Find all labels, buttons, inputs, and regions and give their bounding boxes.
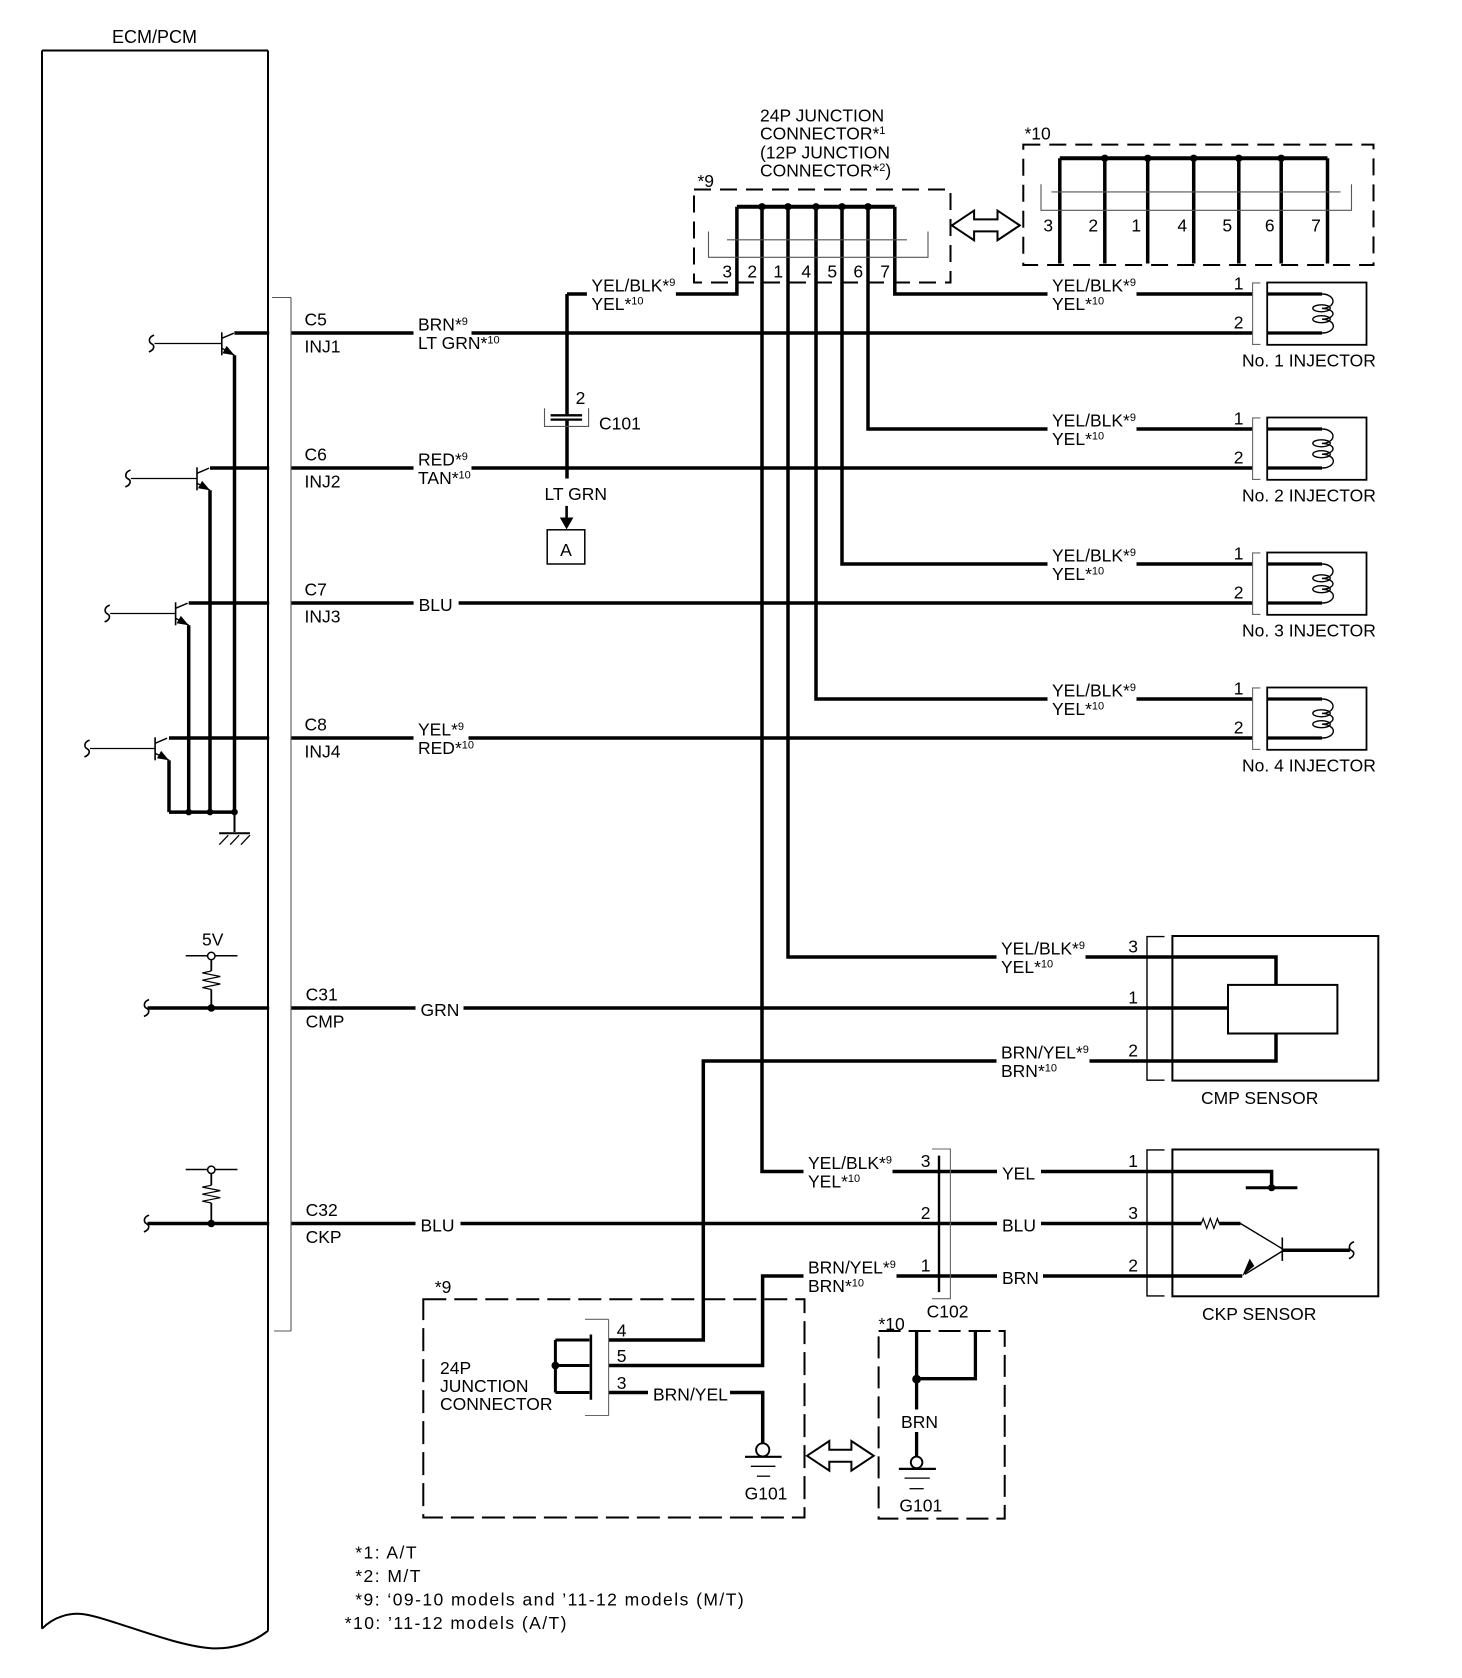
transistor Q3 base break squiggle (105, 605, 110, 622)
svg-text:*10: *10 (879, 1314, 906, 1334)
svg-text:CMP: CMP (306, 1012, 345, 1032)
junction dot rail Q1 (231, 809, 238, 816)
svg-text:2: 2 (1128, 1256, 1138, 1276)
transistor Q4 base wire (90, 748, 155, 750)
svg-text:CKP: CKP (306, 1227, 342, 1247)
svg-text:*9: ‘09-10 models and ’11-12 m: *9: ‘09-10 models and ’11-12 models (M/T… (355, 1590, 745, 1610)
bottom 24P junction connector *9 dashed box (423, 1299, 804, 1517)
svg-text:C7: C7 (305, 580, 327, 600)
transistor Q3 (175, 602, 177, 625)
label YEL/BLK injector 1 (1048, 280, 1137, 296)
junction dot BRN (912, 1375, 921, 1384)
junction *10 bus dot 2 (1144, 155, 1151, 162)
svg-text:5: 5 (1222, 216, 1232, 236)
wire junction pin 1 to CMP sensor pin 3 (788, 207, 1276, 985)
junction dot C32 pullup (208, 1220, 216, 1228)
svg-text:YEL/BLK*9: YEL/BLK*9 (1052, 276, 1136, 296)
junction connector *9 bus bar (737, 205, 895, 209)
wire C31 GRN to CMP sensor pin 1 (148, 1006, 1229, 1010)
No. 4 injector connector bracket (1253, 688, 1261, 750)
No. 2 injector connector bracket (1253, 418, 1261, 480)
svg-text:A: A (560, 540, 572, 560)
CMP sensor box (1172, 936, 1378, 1081)
svg-text:1: 1 (773, 262, 783, 282)
label BRN/YEL C102 pin 1 (804, 1262, 897, 1278)
svg-text:YEL/BLK*9: YEL/BLK*9 (1052, 411, 1136, 431)
svg-text:CMP SENSOR: CMP SENSOR (1201, 1088, 1318, 1108)
CMP sensor inner element (1228, 985, 1337, 1034)
junction connector *9 housing lines (727, 239, 907, 241)
ECM internal ground (234, 812, 236, 832)
svg-text:INJ4: INJ4 (305, 742, 341, 762)
transistor Q1 (221, 332, 223, 355)
5V supply rail for CKP (186, 1169, 238, 1171)
svg-text:G101: G101 (899, 1496, 942, 1516)
svg-text:CONNECTOR*1: CONNECTOR*1 (760, 124, 885, 144)
svg-text:YEL/BLK*9: YEL/BLK*9 (808, 1153, 892, 1173)
svg-text:G101: G101 (745, 1484, 788, 1504)
junction *10 bus dot 1 (1101, 155, 1108, 162)
svg-text:C101: C101 (599, 414, 641, 434)
svg-text:2: 2 (1234, 583, 1244, 603)
pullup resistor R1 (210, 960, 212, 971)
No. 3 injector connector bracket (1253, 553, 1261, 615)
svg-text:4: 4 (617, 1321, 627, 1341)
arrow to A (565, 506, 568, 518)
svg-text:1: 1 (1234, 274, 1244, 294)
label RED / TAN (414, 454, 472, 470)
svg-text:YEL/BLK*9: YEL/BLK*9 (591, 276, 675, 296)
junction *9 bus dot pin 4 (812, 203, 819, 210)
svg-text:24P: 24P (440, 1358, 471, 1378)
svg-text:CKP SENSOR: CKP SENSOR (1202, 1304, 1316, 1324)
svg-text:2: 2 (1234, 313, 1244, 333)
No. 1 injector connector bracket (1253, 283, 1261, 345)
No. 3 injector box (1267, 553, 1366, 615)
svg-text:1: 1 (1234, 679, 1244, 699)
svg-text:YEL/BLK*9: YEL/BLK*9 (1001, 939, 1085, 959)
transistor Q2 base wire (131, 478, 197, 480)
svg-text:C102: C102 (927, 1302, 969, 1322)
C31 wire break squiggle (144, 1000, 149, 1017)
wire YEL/BLK supply from capacitor node to junction pin 3 (567, 207, 737, 294)
svg-text:C32: C32 (306, 1200, 338, 1220)
label BRN CKP pin 2 (997, 1263, 1043, 1280)
wire C8 YEL/RED to No.4 injector pin 2 (169, 736, 1253, 740)
svg-text:BRN/YEL*9: BRN/YEL*9 (808, 1258, 896, 1278)
wire junction pin 2 to C102 pin 3 YEL (762, 207, 1272, 1188)
svg-text:BRN*9: BRN*9 (418, 315, 468, 335)
svg-text:7: 7 (880, 262, 890, 282)
svg-text:3: 3 (1128, 937, 1138, 957)
svg-text:2: 2 (1088, 216, 1098, 236)
svg-text:4: 4 (801, 262, 811, 282)
svg-text:3: 3 (921, 1151, 931, 1171)
svg-text:GRN: GRN (421, 1000, 460, 1020)
ground G101 left (756, 1443, 769, 1456)
svg-text:5: 5 (827, 262, 837, 282)
junction connector *10 bus bar (1060, 156, 1328, 160)
wire C6 RED/TAN to No.2 injector pin 2 (210, 466, 1253, 470)
svg-text:3: 3 (1043, 216, 1053, 236)
ground rail inside ECM (169, 810, 235, 814)
svg-text:2: 2 (1234, 448, 1244, 468)
pullup resistor R2 (210, 1174, 212, 1186)
junction *10 bus dot 3 (1190, 155, 1197, 162)
svg-text:3: 3 (1128, 1203, 1138, 1223)
svg-text:*10: *10 (1025, 124, 1052, 144)
label YEL/BLK injector 2 (1048, 415, 1137, 431)
No. 2 injector box (1267, 418, 1366, 480)
label BLU CKP pin 3 (997, 1210, 1041, 1227)
svg-text:2: 2 (747, 262, 757, 282)
CKP pickup bar (1281, 1238, 1283, 1261)
label BLU C32 (416, 1210, 461, 1227)
CKP output break squiggle (1349, 1242, 1354, 1259)
wire capacitor branch vertical (565, 294, 569, 414)
wire bottom connector pin 3 BRN/YEL to G101 (609, 1393, 763, 1444)
CKP pickup resistor (1201, 1219, 1219, 1229)
svg-text:7: 7 (1311, 216, 1321, 236)
svg-text:4: 4 (1177, 216, 1187, 236)
CKP pickup fork upper diagonal (1241, 1224, 1283, 1249)
label BRN/YEL bottom pin 3 (648, 1379, 730, 1396)
svg-text:YEL: YEL (1002, 1164, 1035, 1184)
wire emitter Q2 to ground rail (208, 490, 212, 812)
wire CKP resistor to fork (1219, 1222, 1240, 1226)
CKP pickup lower diagonal with arrow (1245, 1251, 1282, 1274)
svg-text:CONNECTOR: CONNECTOR (440, 1394, 552, 1414)
svg-text:C5: C5 (305, 310, 327, 330)
No. 1 injector coil L1 (1267, 292, 1322, 295)
label YEL/BLK supply near capacitor (587, 280, 676, 296)
bottom junction jumper bus (554, 1340, 557, 1393)
svg-text:*2: M/T: *2: M/T (355, 1566, 422, 1586)
junction connector *10 dashed box (1023, 145, 1373, 265)
No. 2 injector coil L2 (1267, 427, 1322, 430)
junction *9 bus dot pin 1 (784, 203, 791, 210)
CMP sensor connector bracket (1147, 937, 1165, 1081)
svg-text:2: 2 (921, 1203, 931, 1223)
label YEL/BLK CMP pin 3 (997, 943, 1086, 959)
svg-text:6: 6 (853, 262, 863, 282)
svg-text:ECM/PCM: ECM/PCM (112, 27, 197, 47)
junction *10 bus dot 4 (1235, 155, 1242, 162)
node A box (547, 530, 585, 564)
svg-text:1: 1 (1234, 409, 1244, 429)
ECM/PCM box (42, 50, 268, 52)
junction *10 bus dot 5 (1278, 155, 1285, 162)
svg-text:C6: C6 (305, 445, 327, 465)
svg-text:5: 5 (617, 1346, 627, 1366)
svg-text:No. 4 INJECTOR: No. 4 INJECTOR (1242, 755, 1376, 775)
wire CMP sensor pin 2 BRN/YEL (609, 1034, 1276, 1341)
capacitor C101 (551, 414, 583, 416)
CKP sensor connector bracket (1147, 1150, 1165, 1296)
wire BRN C102 pin 1 to CKP sensor pin 2 (609, 1276, 1243, 1366)
wire junction pin 4 to No.4 injector pin 1 (816, 207, 1253, 699)
svg-text:No. 3 INJECTOR: No. 3 INJECTOR (1242, 620, 1376, 640)
wire YEL/BLK supply from junction pin 7 to No.1 injector pin 1 (895, 207, 1253, 294)
CKP internal junction dot (1268, 1184, 1275, 1191)
svg-text:2: 2 (1234, 718, 1244, 738)
No. 4 injector box (1267, 688, 1366, 750)
wire C7 BLU to No.3 injector pin 2 (189, 601, 1253, 605)
bottom G101 *10 dashed box (879, 1331, 1005, 1519)
svg-text:BRN/YEL*9: BRN/YEL*9 (1001, 1043, 1089, 1063)
equivalence arrow bottom (807, 1441, 874, 1471)
junction *9 bus dot pin 2 (758, 203, 765, 210)
svg-text:BLU: BLU (419, 595, 453, 615)
label BLU C7 (414, 590, 459, 607)
svg-text:BLU: BLU (1002, 1216, 1036, 1236)
svg-text:2: 2 (576, 388, 586, 408)
svg-text:*10: ’11-12 models (A/T): *10: ’11-12 models (A/T) (345, 1613, 568, 1633)
svg-text:1: 1 (1234, 544, 1244, 564)
5V supply rail for CMP (186, 955, 238, 957)
label YEL/BLK injector 4 (1048, 685, 1137, 701)
label YEL / RED (414, 724, 469, 740)
transistor Q2 base break squiggle (125, 470, 130, 487)
svg-text:3: 3 (617, 1373, 627, 1393)
CKP pickup output wire (1282, 1248, 1350, 1252)
wire BRN to G101 right (915, 1331, 918, 1410)
junction connector *10 pins (1058, 158, 1062, 263)
svg-text:No. 2 INJECTOR: No. 2 INJECTOR (1242, 485, 1376, 505)
wire junction pin 6 to No.2 injector pin 1 (868, 207, 1253, 429)
svg-text:BLU: BLU (421, 1216, 455, 1236)
No. 3 injector coil L3 (1267, 562, 1322, 565)
junction *9 bus dot pin 6 (864, 203, 871, 210)
label GRN C31 (416, 995, 464, 1012)
svg-text:1: 1 (1131, 216, 1141, 236)
label YEL CKP pin 1 (997, 1158, 1041, 1175)
svg-text:JUNCTION: JUNCTION (440, 1376, 528, 1396)
transistor Q4 (154, 737, 156, 760)
wire emitter Q4 to ground rail (167, 760, 171, 812)
svg-text:1: 1 (921, 1256, 931, 1276)
svg-text:BRN: BRN (1002, 1268, 1039, 1288)
svg-text:24P JUNCTION: 24P JUNCTION (760, 106, 884, 126)
bottom junction jumper dot (552, 1362, 560, 1370)
wire C5 BRN/LT GRN to No.1 injector pin 2 (234, 331, 1252, 335)
junction dot C31 pullup (208, 1004, 216, 1012)
label YEL/BLK C102 pin 3 (804, 1157, 893, 1173)
transistor Q2 (196, 467, 198, 490)
wire junction pin 5 to No.3 injector pin 1 (842, 207, 1253, 564)
svg-text:C31: C31 (306, 985, 338, 1005)
transistor Q4 base break squiggle (84, 740, 89, 757)
transistor Q3 base wire (110, 613, 175, 615)
junction dot rail Q2 (207, 809, 214, 816)
svg-text:INJ2: INJ2 (305, 472, 341, 492)
svg-text:C8: C8 (305, 715, 327, 735)
connector C102 (938, 1156, 940, 1293)
ECM connector strip (269, 298, 291, 1332)
svg-text:*9: *9 (698, 171, 715, 191)
svg-text:1: 1 (1128, 988, 1138, 1008)
svg-text:6: 6 (1265, 216, 1275, 236)
svg-text:BRN/YEL: BRN/YEL (653, 1385, 728, 1405)
label BRN / LT GRN (414, 319, 472, 335)
svg-text:YEL*9: YEL*9 (418, 720, 464, 740)
svg-text:LT GRN: LT GRN (545, 484, 608, 504)
junction connector *9 dashed box (694, 190, 951, 283)
svg-text:1: 1 (1128, 1151, 1138, 1171)
svg-text:YEL/BLK*9: YEL/BLK*9 (1052, 546, 1136, 566)
svg-text:INJ1: INJ1 (305, 337, 341, 357)
wire emitter Q1 to ground rail (233, 355, 237, 812)
junction connector *10 housing lines (1052, 191, 1341, 193)
svg-text:CONNECTOR*2): CONNECTOR*2) (760, 161, 891, 181)
transistor Q1 base break squiggle (149, 335, 154, 352)
svg-text:INJ3: INJ3 (305, 607, 341, 627)
bottom junction connector bar (590, 1335, 593, 1400)
C32 wire break squiggle (144, 1215, 149, 1232)
svg-text:2: 2 (1128, 1041, 1138, 1061)
svg-text:(12P JUNCTION: (12P JUNCTION (760, 143, 890, 163)
No. 1 injector box (1267, 283, 1366, 345)
svg-text:5V: 5V (202, 930, 224, 950)
svg-text:No. 1 INJECTOR: No. 1 INJECTOR (1242, 350, 1376, 370)
transistor Q1 base wire (155, 343, 222, 345)
label YEL/BLK injector 3 (1048, 550, 1137, 566)
wire C32 BLU to CKP sensor pin 3 (148, 1222, 1202, 1226)
svg-text:3: 3 (722, 262, 732, 282)
No. 4 injector coil L4 (1267, 697, 1322, 700)
CKP internal crossbar (1246, 1186, 1298, 1189)
svg-text:YEL/BLK*9: YEL/BLK*9 (1052, 681, 1136, 701)
svg-text:*1: A/T: *1: A/T (355, 1543, 418, 1563)
junction *9 bus dot pin 5 (838, 203, 845, 210)
bottom junction connector bracket (585, 1319, 609, 1415)
label BRN/YEL CMP pin 2 (997, 1047, 1090, 1063)
svg-text:RED*9: RED*9 (418, 450, 468, 470)
ground G101 right (911, 1457, 923, 1469)
wire emitter Q3 to ground rail (187, 625, 191, 812)
svg-text:*9: *9 (435, 1277, 452, 1297)
equivalence arrow between *9 and *10 junction connectors (952, 211, 1020, 241)
CKP sensor box (1172, 1150, 1378, 1297)
svg-text:BRN: BRN (901, 1412, 938, 1432)
junction dot rail Q3 (185, 809, 192, 816)
